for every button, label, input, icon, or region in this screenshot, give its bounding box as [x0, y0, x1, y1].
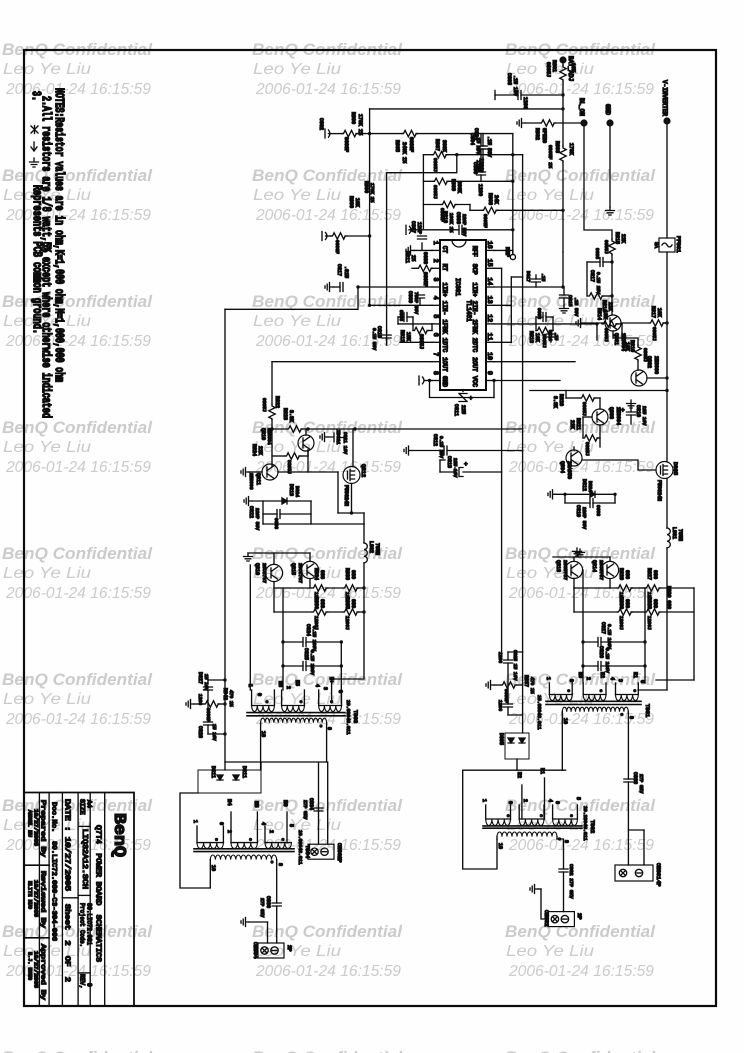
ground CN802 — [530, 885, 538, 894]
svg-text:H5: H5 — [253, 801, 260, 808]
wire cap stubs — [282, 642, 284, 666]
transformer T803 core — [483, 825, 582, 827]
svg-text:Leo Ye Liu: Leo Ye Liu — [253, 313, 341, 330]
connector CN801 — [615, 865, 653, 881]
svg-text:1206: 1206 — [477, 184, 483, 196]
svg-text:1IN+: 1IN+ — [441, 283, 448, 298]
wire Q811 links — [278, 471, 338, 473]
svg-text:10/27/2005: 10/27/2005 — [33, 880, 39, 917]
svg-text:H6: H6 — [282, 800, 289, 807]
transistor Q814 — [601, 561, 618, 578]
wire D811 left rail — [180, 793, 210, 888]
wire CN801 second — [628, 829, 644, 831]
svg-text:C830: C830 — [632, 772, 638, 784]
capacitor C822 — [262, 501, 264, 524]
svg-text:2006-01-24 16:15:59: 2006-01-24 16:15:59 — [5, 207, 151, 224]
wire Q top rail right — [553, 556, 610, 558]
svg-text:Leo Ye Liu: Leo Ye Liu — [3, 61, 91, 78]
svg-text:11: 11 — [486, 333, 493, 341]
svg-text:Q815: Q815 — [290, 563, 296, 575]
svg-text:N3: N3 — [577, 672, 583, 678]
junction pin14 net — [561, 285, 564, 288]
svg-text:2: 2 — [522, 799, 528, 802]
svg-text:ELITE KUO: ELITE KUO — [27, 881, 33, 909]
svg-text:C810: C810 — [635, 405, 641, 417]
svg-text:220P 50V: 220P 50V — [254, 508, 260, 530]
svg-text:R802: R802 — [534, 128, 540, 140]
svg-text:Project Code.: Project Code. — [79, 903, 86, 947]
svg-text:19.28048.011: 19.28048.011 — [582, 806, 588, 841]
wire T803 right post — [557, 839, 564, 869]
wire pin15 SCP — [494, 267, 502, 269]
op-amp IC801 TL1451 — [440, 240, 486, 390]
svg-text:C809: C809 — [407, 291, 413, 303]
svg-text:BenQ Confidential: BenQ Confidential — [505, 293, 655, 311]
ground D827 chain — [186, 700, 194, 709]
svg-text:1U 16V: 1U 16V — [211, 724, 217, 741]
capacitor C806 — [480, 155, 482, 172]
wire left column — [422, 155, 424, 230]
svg-text:C817: C817 — [589, 270, 595, 282]
svg-text:0603: 0603 — [536, 308, 542, 319]
svg-text:0805J: 0805J — [581, 402, 587, 416]
resistor R816 — [586, 262, 588, 296]
svg-text:R829: R829 — [618, 568, 624, 580]
wire bottom link rail — [463, 770, 566, 869]
diode D813 row — [244, 497, 252, 506]
svg-text:0.1U 25V: 0.1U 25V — [438, 436, 444, 458]
svg-text:RFF: RFF — [471, 246, 478, 257]
capacitor C831 — [507, 685, 509, 704]
wire rung4b — [470, 209, 482, 211]
svg-text:G: G — [568, 679, 574, 682]
wire Q top rail — [248, 552, 310, 554]
wire D805 source — [666, 479, 668, 529]
ground C812 — [404, 446, 412, 455]
svg-text:22U 16V: 22U 16V — [641, 406, 647, 426]
svg-text:BenQ Confidential: BenQ Confidential — [252, 419, 402, 437]
svg-text:1IN-: 1IN- — [441, 301, 448, 315]
svg-text:R809: R809 — [450, 179, 456, 191]
svg-text:2006-01-24 16:15:59: 2006-01-24 16:15:59 — [508, 711, 654, 728]
svg-text:IC801: IC801 — [454, 278, 461, 296]
wire CN803 feeds — [261, 762, 328, 844]
svg-text:BenQ Confidential: BenQ Confidential — [505, 1049, 655, 1053]
svg-text:5: 5 — [432, 314, 439, 318]
svg-text:R811: R811 — [404, 251, 410, 263]
capacitor C812 — [412, 450, 444, 452]
node V-INVERTER — [663, 117, 670, 124]
svg-text:10K: 10K — [570, 63, 576, 72]
svg-text:Doc.No. 89.LIC72.080-C3-304-0: Doc.No. 89.LIC72.080-C3-304-006 — [51, 802, 58, 941]
svg-text:Q812: Q812 — [360, 464, 367, 477]
svg-text:BenQ Confidential: BenQ Confidential — [252, 167, 402, 185]
capacitor C830 — [627, 778, 629, 780]
svg-text:LIQ32A12.SCH: LIQ32A12.SCH — [80, 829, 88, 889]
svg-text:C803: C803 — [506, 73, 512, 85]
ground C815 — [560, 305, 569, 313]
ground mid — [573, 548, 582, 556]
svg-text:3.3K: 3.3K — [552, 396, 558, 408]
svg-text:C832 27P 3KV: C832 27P 3KV — [568, 864, 574, 899]
svg-text:22U: 22U — [460, 405, 466, 414]
resistor R842 — [194, 703, 204, 705]
svg-text:C821 16V: C821 16V — [342, 432, 348, 454]
svg-text:R824: R824 — [251, 444, 257, 456]
ground pin3 — [325, 283, 333, 292]
svg-text:Q814: Q814 — [591, 560, 597, 572]
capacitor C829 — [507, 663, 509, 685]
wire T801 N1 to L801 — [638, 689, 667, 691]
svg-text:C822: C822 — [248, 506, 254, 518]
wire VCC rail right — [494, 380, 560, 382]
svg-text:C836: C836 — [265, 896, 271, 908]
svg-text:R816: R816 — [601, 300, 607, 312]
svg-text:.1U 50V: .1U 50V — [573, 297, 579, 317]
wire pin4 1IN- — [370, 304, 432, 306]
wire left long drop — [224, 309, 226, 770]
svg-text:0805J: 0805J — [545, 62, 551, 77]
wire 1IN+ down-left — [225, 287, 358, 309]
wire right cap stubs — [582, 642, 584, 666]
svg-text:Leo Ye Liu: Leo Ye Liu — [506, 565, 594, 582]
svg-text:0805J: 0805J — [603, 328, 609, 342]
transistor Q801 — [611, 296, 613, 315]
wire SCP long drop — [501, 268, 503, 658]
capacitor C815 — [563, 287, 565, 295]
svg-text:2006-01-24 16:15:59: 2006-01-24 16:15:59 — [255, 207, 401, 224]
svg-text:680: 680 — [624, 599, 630, 608]
svg-text:NOTES:Resistor values are in o: NOTES:Resistor values are in ohm,K=1,000… — [51, 88, 65, 382]
svg-text:18: 18 — [497, 843, 503, 849]
svg-text:BenQ Confidential: BenQ Confidential — [252, 1049, 402, 1053]
svg-text:2OUT: 2OUT — [471, 357, 478, 372]
resistor R803 — [562, 109, 564, 146]
svg-text:19.38048.011: 19.38048.011 — [345, 700, 351, 735]
svg-text:BenQ Confidential: BenQ Confidential — [252, 293, 402, 311]
transformer T804 tall posts — [230, 812, 232, 843]
svg-text:6: 6 — [507, 801, 513, 804]
svg-text:10/27/2005: 10/27/2005 — [33, 951, 39, 988]
svg-text:4: 4 — [609, 677, 615, 680]
svg-text:L801: L801 — [671, 527, 677, 539]
svg-text:0.1U 160V: 0.1U 160V — [311, 626, 317, 651]
wire pin14 2IN+ — [494, 286, 563, 288]
svg-text:120P: 120P — [416, 222, 422, 234]
svg-text:R837: R837 — [523, 675, 529, 687]
svg-text:CN804: CN804 — [252, 942, 259, 959]
svg-text:C806: C806 — [472, 162, 478, 174]
wire 2IN bend — [511, 276, 522, 278]
svg-text:1U 16V: 1U 16V — [203, 674, 209, 691]
svg-text:BenQ Confidential: BenQ Confidential — [505, 923, 655, 941]
svg-text:2P: 2P — [336, 856, 343, 863]
capacitor C827 — [583, 641, 598, 643]
capacitor C832 — [559, 869, 568, 872]
wire Q812 source — [351, 484, 353, 514]
wire pin13 2IN- — [494, 304, 511, 306]
svg-text:N2: N2 — [599, 672, 605, 678]
resistor R827 — [645, 585, 661, 591]
svg-text:GND: GND — [604, 104, 611, 115]
svg-text:.1U: .1U — [553, 332, 559, 341]
resistor R805 — [402, 130, 418, 136]
svg-text:3: 3 — [432, 278, 439, 282]
svg-text:2DTC: 2DTC — [471, 338, 478, 353]
capacitor C809 — [419, 299, 421, 305]
svg-text:R807: R807 — [434, 139, 440, 151]
wire right block verticals — [582, 570, 584, 642]
svg-text:2: 2 — [585, 677, 591, 680]
svg-text:Represents PCB common ground.: Represents PCB common ground. — [29, 185, 43, 334]
svg-text:Leo Ye Liu: Leo Ye Liu — [3, 691, 91, 708]
svg-text:CN801: CN801 — [655, 863, 662, 880]
svg-text:R830: R830 — [618, 597, 624, 609]
capacitor C814 — [543, 313, 546, 322]
capacitor C801 terminal — [322, 232, 327, 241]
capacitor C813 electrolytic — [440, 471, 455, 473]
svg-text:D817: D817 — [525, 271, 531, 282]
capacitor C802 terminal — [325, 129, 330, 138]
svg-text:C815: C815 — [567, 295, 573, 307]
svg-text:9: 9 — [486, 371, 493, 375]
svg-text:6: 6 — [218, 822, 224, 825]
capacitor C826 — [583, 665, 598, 667]
node BL_ON — [580, 119, 587, 126]
capacitor D827 — [207, 690, 209, 704]
resistor R828 — [645, 609, 661, 615]
svg-text:1206J: 1206J — [618, 616, 624, 630]
svg-text:R827: R827 — [646, 568, 652, 580]
wire pin6 1DTC — [400, 341, 432, 343]
wire 1IN- vertical — [369, 134, 371, 306]
wire R823 net right — [355, 428, 523, 430]
svg-text:3: 3 — [617, 679, 623, 682]
svg-text:0805J: 0805J — [432, 185, 438, 199]
svg-text:6: 6 — [432, 333, 439, 337]
wire Q812 gate — [352, 429, 354, 467]
svg-text:0603F: 0603F — [334, 240, 340, 254]
wire C813 stub — [439, 460, 441, 472]
wire L802 down — [332, 563, 364, 703]
svg-text:Leo Ye Liu: Leo Ye Liu — [253, 61, 341, 78]
wire T801 to CN801 left — [561, 769, 563, 771]
svg-text:27P 3KV: 27P 3KV — [259, 898, 265, 918]
svg-text:T803: T803 — [352, 710, 359, 723]
svg-text:4: 4 — [314, 684, 320, 687]
connector CN804 — [258, 943, 284, 958]
svg-text:0603: 0603 — [595, 505, 601, 516]
svg-text:3.3K: 3.3K — [288, 410, 294, 422]
svg-text:0805F: 0805F — [482, 214, 488, 228]
svg-text:1: 1 — [247, 684, 253, 687]
svg-text:680: 680 — [652, 599, 658, 608]
resistor R824 — [285, 453, 301, 459]
svg-text:22K: 22K — [620, 234, 626, 243]
transformer T803 tall posts — [521, 785, 523, 819]
capacitor C804 — [480, 134, 482, 146]
svg-text:2006-01-24 16:15:59: 2006-01-24 16:15:59 — [5, 333, 151, 350]
svg-text:300K: 300K — [441, 140, 447, 152]
wire to 2IN net drop — [513, 154, 523, 156]
svg-text:BS24: BS24 — [294, 486, 300, 497]
svg-text:R813: R813 — [528, 331, 534, 343]
svg-text:VCC: VCC — [471, 376, 478, 387]
transformer T801 primary — [549, 695, 572, 701]
svg-text:1206: 1206 — [497, 652, 503, 663]
ground CN804 — [241, 918, 249, 927]
svg-text:R803: R803 — [554, 141, 560, 153]
svg-text:10/27/2005: 10/27/2005 — [33, 809, 39, 846]
svg-text:Q7T4 POWER BOARD SCHEMATICS: Q7T4 POWER BOARD SCHEMATICS — [94, 825, 102, 962]
svg-text:1: 1 — [192, 820, 198, 823]
connector CN802 — [548, 912, 574, 927]
svg-text:15K: 15K — [405, 332, 411, 341]
svg-text:+: + — [469, 395, 473, 402]
svg-text:C834: C834 — [308, 798, 314, 810]
transformer T804 secondary — [210, 855, 276, 860]
svg-text:0805J: 0805J — [651, 327, 657, 341]
svg-text:2SC5707: 2SC5707 — [598, 560, 604, 580]
svg-text:C807: C807 — [410, 221, 416, 233]
svg-text:10K: 10K — [624, 342, 630, 351]
svg-text:T802: T802 — [589, 820, 596, 833]
svg-text:0.1U 160V: 0.1U 160V — [606, 624, 612, 649]
wire pin8 GND — [425, 380, 432, 382]
transistor Q804 — [566, 450, 582, 466]
zener ZD811 cluster — [320, 433, 328, 442]
svg-text:FU9024N: FU9024N — [343, 485, 349, 506]
svg-text:14: 14 — [486, 278, 493, 286]
svg-text:C813: C813 — [446, 456, 452, 468]
transformer T801 core — [546, 700, 641, 702]
svg-text:D812: D812 — [581, 479, 587, 491]
svg-text:Leo Ye Liu: Leo Ye Liu — [506, 187, 594, 204]
transformer T804 primary — [197, 843, 223, 849]
svg-text:0.1U 50V: 0.1U 50V — [371, 328, 377, 350]
transistor Q816 — [265, 564, 282, 581]
svg-text:GND: GND — [441, 376, 448, 387]
svg-text:680: 680 — [350, 599, 356, 608]
svg-text:Q801: Q801 — [613, 333, 619, 345]
svg-text:C811: C811 — [453, 404, 459, 416]
capacitor C811 — [459, 390, 467, 402]
svg-text:R836: R836 — [313, 597, 319, 609]
svg-text:TL1451: TL1451 — [465, 300, 472, 322]
resistor R810 — [441, 201, 457, 207]
wire VCC rail 2 — [530, 390, 667, 392]
wire pin5 1FBK — [398, 323, 432, 325]
svg-text:2SC5707: 2SC5707 — [261, 563, 267, 583]
wire pin3 1IN+ — [358, 286, 432, 288]
resistor R830 — [574, 611, 617, 613]
svg-text:C828: C828 — [197, 726, 203, 738]
resistor R836 — [274, 611, 312, 613]
transistor Q811 — [262, 464, 278, 480]
svg-text:ZD811: ZD811 — [335, 430, 341, 445]
resistor R809 — [433, 178, 449, 184]
resistor R808 — [331, 233, 347, 239]
svg-text:R805: R805 — [394, 140, 400, 152]
svg-text:240K 1%: 240K 1% — [401, 142, 407, 163]
diode box D806 — [505, 733, 529, 759]
svg-text:2: 2 — [285, 686, 291, 689]
svg-text:15: 15 — [486, 259, 493, 267]
svg-text:2006-01-24 16:15:59: 2006-01-24 16:15:59 — [255, 963, 401, 980]
resistor R833 — [326, 587, 343, 589]
svg-text:2006-01-24 16:15:59: 2006-01-24 16:15:59 — [5, 459, 151, 476]
svg-text:220P 50V: 220P 50V — [461, 214, 467, 236]
testpoint REF — [510, 254, 515, 259]
resistor R835 — [326, 611, 343, 613]
note symbol diode-arrow — [31, 126, 38, 134]
svg-text:R806: R806 — [363, 181, 369, 193]
svg-text:0603: 0603 — [398, 310, 404, 321]
svg-text:780P 50V: 780P 50V — [413, 292, 419, 314]
capacitor C836 — [276, 860, 278, 903]
capacitor C828 — [207, 704, 209, 722]
svg-text:2SC5707: 2SC5707 — [562, 560, 568, 580]
diode box D811 — [198, 770, 261, 793]
svg-text:0.1U 160V: 0.1U 160V — [309, 650, 315, 675]
svg-text:C812: C812 — [432, 434, 438, 446]
svg-text:0805J: 0805J — [261, 398, 267, 412]
svg-text:0.1U 160V: 0.1U 160V — [604, 648, 610, 673]
svg-text:FU9024N: FU9024N — [656, 480, 662, 501]
capacitor C803 — [495, 94, 518, 96]
svg-text:H.J. HONG: H.J. HONG — [27, 952, 33, 980]
svg-text:0603F: 0603F — [343, 137, 349, 152]
svg-text:BenQ Confidential: BenQ Confidential — [252, 923, 402, 941]
resistor R837 — [494, 684, 501, 686]
svg-text:2: 2 — [268, 830, 274, 833]
svg-text:+: + — [621, 407, 625, 414]
transformer T802 core — [247, 712, 345, 714]
resistor R817 — [621, 322, 649, 324]
svg-text:R817: R817 — [650, 306, 656, 318]
svg-text:0805F 1%: 0805F 1% — [547, 145, 553, 168]
svg-text:0.1U 25V: 0.1U 25V — [595, 272, 601, 294]
svg-text:.1U 50V: .1U 50V — [486, 136, 492, 157]
title block grid — [24, 793, 134, 1006]
svg-text:2SC5707: 2SC5707 — [297, 563, 303, 583]
svg-text:Leo Ye Liu: Leo Ye Liu — [506, 943, 594, 960]
svg-text:220P 50V: 220P 50V — [581, 507, 587, 529]
svg-text:RT: RT — [441, 264, 448, 272]
svg-text:2N3906: 2N3906 — [653, 356, 659, 374]
svg-text:BL_ON: BL_ON — [578, 98, 585, 116]
wire GND pin drop — [430, 381, 460, 398]
svg-text:178K 1%: 178K 1% — [357, 114, 363, 135]
svg-text:470 1%: 470 1% — [228, 690, 234, 707]
node GND — [606, 119, 613, 126]
svg-text:R842: R842 — [222, 688, 228, 700]
svg-text:22U 16V: 22U 16V — [452, 458, 458, 478]
resistor R812 — [413, 327, 429, 333]
capacitor C808 — [404, 313, 407, 322]
wire T801 posts down — [561, 713, 563, 770]
svg-text:22K: 22K — [569, 420, 575, 429]
capacitor C825 — [283, 665, 303, 667]
wire rung2 — [423, 154, 432, 156]
wire pin9 VCC — [492, 379, 495, 382]
svg-text:0603F: 0603F — [408, 137, 414, 152]
ground Q816 top — [244, 553, 253, 561]
wire rung3 — [423, 180, 433, 182]
svg-text:680: 680 — [350, 570, 356, 579]
svg-text:16: 16 — [486, 241, 493, 249]
svg-text:ANSEL HU: ANSEL HU — [27, 810, 33, 837]
